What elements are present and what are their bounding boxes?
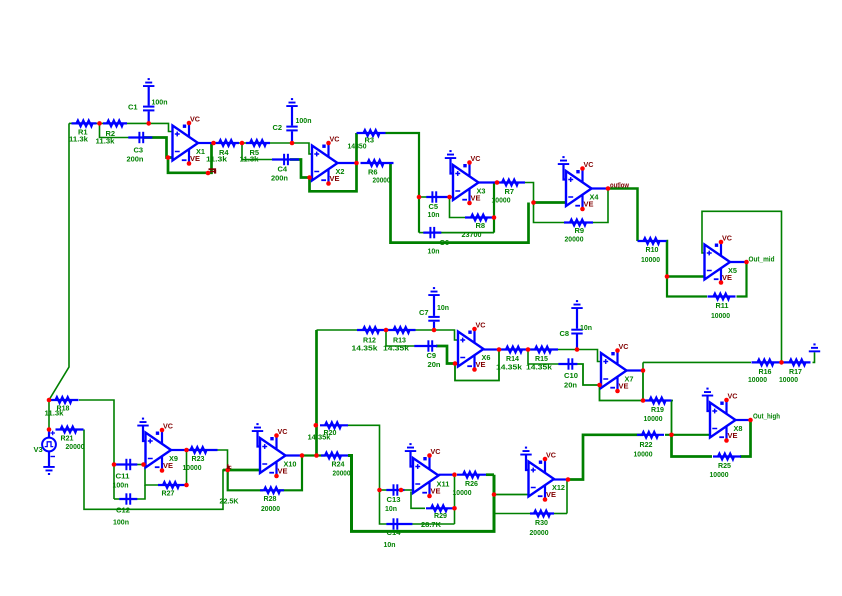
svg-text:200n: 200n	[271, 174, 288, 183]
svg-text:10000: 10000	[634, 450, 653, 459]
svg-text:VE: VE	[722, 275, 732, 282]
svg-text:VC: VC	[722, 236, 732, 243]
svg-text:C6: C6	[440, 238, 450, 247]
svg-text:20000: 20000	[530, 528, 549, 537]
svg-text:VE: VE	[619, 384, 629, 391]
svg-text:11.3k: 11.3k	[96, 137, 116, 146]
svg-text:10000: 10000	[453, 488, 472, 497]
svg-text:VE: VE	[728, 433, 738, 440]
svg-text:R27: R27	[162, 489, 175, 498]
svg-text:10n: 10n	[384, 540, 396, 549]
svg-text:X2: X2	[336, 167, 345, 176]
svg-text:20000: 20000	[565, 235, 584, 244]
svg-text:R8: R8	[476, 221, 486, 230]
svg-text:10000: 10000	[183, 463, 202, 472]
svg-text:C3: C3	[134, 146, 144, 155]
svg-text:VC: VC	[163, 424, 173, 431]
svg-text:14.35k: 14.35k	[526, 363, 553, 372]
svg-text:V3: V3	[34, 445, 43, 454]
svg-text:VC: VC	[546, 453, 556, 460]
svg-text:R26: R26	[465, 479, 478, 488]
svg-text:Out_high: Out_high	[753, 412, 780, 421]
svg-text:10n: 10n	[580, 323, 592, 332]
svg-text:X12: X12	[552, 483, 565, 492]
svg-text:10000: 10000	[711, 311, 730, 320]
svg-text:R28: R28	[264, 494, 277, 503]
svg-text:X6: X6	[482, 353, 491, 362]
svg-text:14850: 14850	[348, 142, 367, 151]
svg-text:100n: 100n	[152, 98, 168, 107]
svg-text:R22: R22	[640, 440, 653, 449]
svg-text:X11: X11	[437, 480, 450, 489]
svg-text:X1: X1	[196, 147, 205, 156]
svg-text:14.35k: 14.35k	[308, 433, 332, 442]
svg-text:23700: 23700	[462, 230, 482, 239]
svg-text:VC: VC	[584, 162, 594, 169]
svg-text:VC: VC	[476, 323, 486, 330]
svg-text:X9: X9	[169, 454, 178, 463]
svg-text:VC: VC	[728, 394, 738, 401]
svg-text:C9: C9	[427, 351, 437, 360]
svg-text:X3: X3	[477, 187, 486, 196]
svg-text:R25: R25	[718, 461, 731, 470]
svg-text:C11: C11	[116, 472, 130, 481]
svg-text:22.5K: 22.5K	[220, 497, 240, 506]
svg-text:R24: R24	[332, 460, 346, 469]
svg-text:VC: VC	[330, 137, 340, 144]
svg-text:11.3k: 11.3k	[206, 155, 228, 164]
svg-text:X7: X7	[625, 375, 634, 384]
svg-text:10n: 10n	[428, 247, 440, 256]
svg-text:14.35k: 14.35k	[352, 344, 379, 353]
svg-text:10000: 10000	[492, 196, 511, 205]
svg-text:100n: 100n	[113, 518, 129, 527]
svg-text:R23: R23	[192, 454, 205, 463]
svg-text:28.7K: 28.7K	[421, 520, 442, 529]
svg-text:R30: R30	[535, 518, 548, 527]
svg-text:X5: X5	[728, 266, 737, 275]
svg-text:C1: C1	[128, 103, 138, 112]
svg-text:VE: VE	[584, 202, 594, 209]
svg-text:14.35k: 14.35k	[496, 363, 523, 372]
svg-text:VC: VC	[431, 449, 441, 456]
svg-text:10n: 10n	[437, 303, 449, 312]
svg-text:20000: 20000	[333, 469, 351, 478]
svg-text:VC: VC	[619, 344, 629, 351]
svg-text:20n: 20n	[564, 381, 577, 390]
svg-text:VC: VC	[278, 429, 288, 436]
svg-text:200n: 200n	[127, 155, 144, 164]
svg-text:VE: VE	[471, 196, 481, 203]
svg-text:20000: 20000	[261, 504, 280, 513]
svg-text:VE: VE	[163, 463, 173, 470]
svg-text:X8: X8	[734, 424, 743, 433]
svg-text:C14: C14	[387, 528, 402, 537]
svg-text:11.3k: 11.3k	[45, 409, 65, 418]
svg-text:VE: VE	[278, 469, 288, 476]
svg-text:R10: R10	[646, 245, 659, 254]
svg-text:100n: 100n	[113, 481, 129, 490]
svg-text:10000: 10000	[641, 255, 660, 264]
svg-text:R11: R11	[716, 301, 729, 310]
svg-text:10n: 10n	[385, 504, 397, 513]
svg-text:10000: 10000	[748, 375, 767, 384]
svg-text:C10: C10	[564, 371, 578, 380]
svg-text:X10: X10	[284, 460, 297, 469]
svg-text:R29: R29	[434, 511, 447, 520]
svg-text:X4: X4	[590, 193, 600, 202]
svg-text:VC: VC	[190, 117, 200, 124]
svg-text:20n: 20n	[428, 360, 441, 369]
svg-text:Out_mid: Out_mid	[749, 255, 775, 264]
svg-text:100n: 100n	[296, 116, 312, 125]
svg-text:C4: C4	[278, 165, 288, 174]
svg-text:11.3k: 11.3k	[240, 155, 260, 164]
svg-text:20000: 20000	[373, 176, 391, 185]
svg-text:10000: 10000	[710, 470, 729, 479]
svg-text:R19: R19	[651, 405, 664, 414]
svg-text:10n: 10n	[428, 210, 440, 219]
svg-text:C12: C12	[116, 506, 130, 515]
svg-text:VE: VE	[330, 176, 340, 183]
svg-text:VE: VE	[431, 489, 441, 496]
svg-text:C7: C7	[419, 308, 429, 317]
svg-text:C2: C2	[273, 123, 283, 132]
svg-text:10000: 10000	[779, 375, 798, 384]
svg-text:10000: 10000	[644, 414, 663, 423]
svg-text:VC: VC	[471, 156, 481, 163]
svg-text:VE: VE	[476, 362, 486, 369]
svg-text:20000: 20000	[66, 442, 85, 451]
svg-text:11.3k: 11.3k	[69, 135, 89, 144]
svg-text:VE: VE	[546, 492, 556, 499]
svg-text:C13: C13	[387, 495, 401, 504]
svg-text:14.35k: 14.35k	[383, 344, 410, 353]
svg-text:outlow: outlow	[610, 181, 629, 190]
svg-text:VE: VE	[190, 156, 200, 163]
svg-text:C8: C8	[560, 329, 570, 338]
